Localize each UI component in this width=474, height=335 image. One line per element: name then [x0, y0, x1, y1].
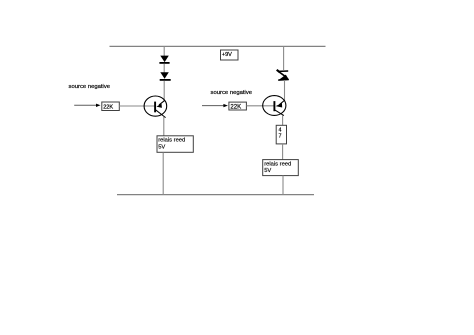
wire: left input arrow — [74, 104, 100, 107]
wire: Q2 emitter to resistor R3 — [282, 116, 284, 126]
source negative label (right) — [211, 90, 253, 96]
wire: between D1 and D2 — [163, 64, 165, 73]
svg-text:5V: 5V — [264, 168, 271, 174]
wire: Q1 emitter to relay K1 — [163, 117, 165, 136]
wire: zener to transistor Q2 — [284, 80, 286, 100]
svg-text:22K: 22K — [103, 105, 113, 111]
wire: left branch, bus to diode D1 — [163, 46, 165, 56]
label +9V — [221, 50, 239, 60]
zener diode Z1 — [277, 70, 289, 81]
wire: R1 to Q1 base — [119, 105, 155, 107]
svg-text:4: 4 — [279, 127, 282, 133]
source negative label (left) — [69, 84, 111, 90]
wire: right branch, bus to zener — [283, 46, 285, 70]
svg-text:source negative: source negative — [211, 90, 253, 96]
wire: R3 to relay K2 — [282, 144, 284, 160]
svg-text:+9V: +9V — [222, 52, 232, 58]
svg-text:5V: 5V — [158, 144, 165, 150]
relay K1 relais reed 5V — [157, 136, 193, 153]
svg-text:source negative: source negative — [69, 84, 111, 90]
transistor Q2 — [263, 96, 286, 116]
resistor R1 22K — [102, 102, 120, 111]
svg-text:7: 7 — [279, 134, 282, 140]
resistor R2 22K — [229, 102, 247, 111]
transistor Q1 — [144, 96, 167, 118]
svg-text:relais reed: relais reed — [158, 137, 185, 143]
diode D1 — [159, 56, 169, 63]
wire: right input arrow — [202, 104, 228, 107]
wire: +9V top bus — [110, 45, 326, 47]
wire: D2 to transistor Q1 collector — [163, 81, 165, 101]
wire: R2 to Q2 base — [246, 105, 273, 107]
wire: ground bottom bus — [117, 194, 314, 196]
wire: relay K1 to bottom bus — [162, 152, 164, 194]
wire: relay K2 to bottom bus — [282, 176, 284, 195]
relay K2 relais reed 5V — [263, 160, 299, 176]
resistor R3 47 — [276, 125, 286, 144]
svg-text:relais reed: relais reed — [264, 162, 291, 168]
diode D2 — [160, 72, 171, 80]
svg-text:22K: 22K — [230, 104, 241, 111]
